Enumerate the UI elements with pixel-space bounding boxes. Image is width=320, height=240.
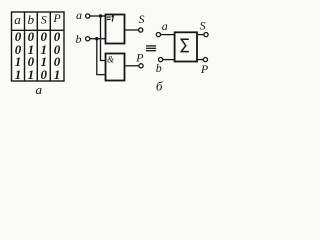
svg-text:a: a — [162, 19, 168, 33]
sigma wire S — [197, 34, 204, 36]
output terminal P — [139, 64, 143, 68]
half-adder box — [175, 32, 197, 61]
sigma input terminal a — [156, 33, 160, 37]
svg-text:b: b — [156, 61, 162, 75]
svg-text:a: a — [76, 8, 82, 22]
wire b to XOR — [90, 38, 106, 40]
input terminal a — [86, 14, 90, 18]
equivalence sign — [146, 46, 156, 51]
svg-text:P: P — [135, 51, 144, 65]
svg-text:1: 1 — [28, 67, 35, 82]
sigma output terminal S — [204, 33, 208, 37]
svg-text:S: S — [41, 13, 47, 27]
truth table header separator — [12, 29, 65, 31]
wire b branch down — [97, 39, 106, 75]
table row 1 — [15, 29, 61, 44]
svg-text:P: P — [52, 11, 61, 25]
XOR gate box — [106, 15, 125, 44]
table row 4 — [15, 67, 61, 82]
sigma input terminal b — [159, 58, 163, 62]
truth table outer border — [12, 12, 65, 81]
svg-text:a: a — [14, 12, 21, 27]
svg-text:b: b — [76, 32, 82, 46]
table row 2 — [15, 42, 61, 57]
truth table column line 2 — [36, 12, 38, 81]
junction node b — [95, 37, 98, 40]
junction node a — [99, 14, 102, 17]
wire S output — [125, 29, 139, 31]
svg-text:1: 1 — [54, 67, 61, 82]
sigma wire b — [163, 59, 175, 61]
sigma symbol — [181, 39, 189, 51]
svg-text:S: S — [200, 19, 206, 33]
table row 3 — [15, 54, 61, 69]
XOR label =1 — [107, 15, 114, 21]
svg-text:S: S — [139, 12, 145, 26]
wire P output — [125, 65, 139, 67]
svg-text:1: 1 — [15, 67, 22, 82]
svg-text:P: P — [200, 62, 209, 76]
svg-text:0: 0 — [41, 67, 48, 82]
truth table column line 1 — [24, 12, 26, 81]
wire a branch down — [101, 16, 106, 61]
sigma output terminal P — [203, 58, 207, 62]
sigma wire P — [197, 59, 203, 61]
input terminal b — [86, 37, 90, 41]
svg-text:&: & — [107, 55, 114, 65]
svg-text:b: b — [27, 12, 34, 27]
svg-text:а: а — [35, 82, 42, 97]
truth table column line 3 — [49, 12, 51, 81]
output terminal S — [139, 28, 143, 32]
wire a to XOR — [90, 15, 106, 17]
svg-text:б: б — [156, 79, 163, 94]
AND gate box — [106, 54, 125, 81]
sigma wire a — [161, 34, 175, 36]
